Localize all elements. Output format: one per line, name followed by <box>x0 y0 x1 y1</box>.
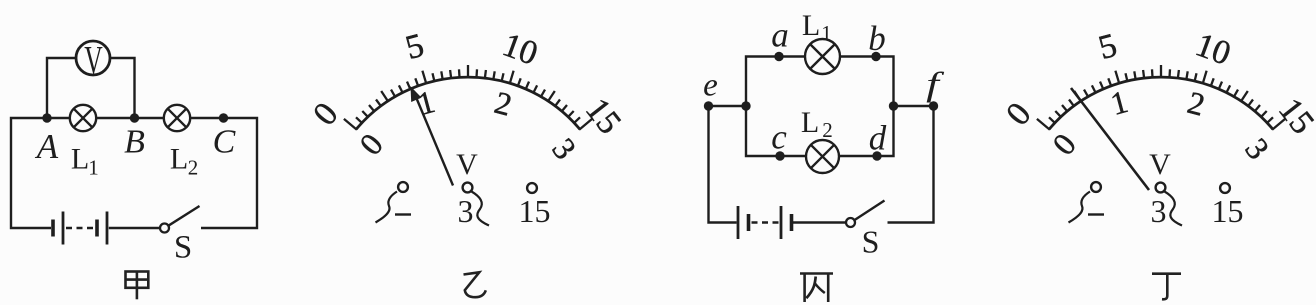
svg-text:S: S <box>862 224 880 260</box>
caption bing (丙) <box>800 274 833 303</box>
battery (jia) <box>51 220 55 237</box>
terminal 3 <box>463 183 473 193</box>
terminal 3 lead squiggle <box>1165 192 1183 226</box>
svg-text:15: 15 <box>519 193 551 229</box>
minus sign <box>1088 213 1104 215</box>
node left junction <box>741 101 750 110</box>
scale ticks <box>1037 65 1285 130</box>
wire: voltmeter branch <box>47 58 135 118</box>
svg-text:S: S <box>174 230 192 266</box>
needle (yi) with arrowhead <box>415 94 454 186</box>
node right junction <box>889 101 898 110</box>
svg-text:e: e <box>703 68 718 104</box>
dial arc <box>356 77 580 129</box>
terminal minus lead squiggle <box>376 192 398 223</box>
dial arc <box>1049 77 1273 129</box>
caption jia (甲) <box>126 272 149 300</box>
svg-text:B: B <box>124 124 145 161</box>
svg-text:2: 2 <box>188 156 199 180</box>
svg-text:V: V <box>84 39 102 83</box>
wire: bing outer + branches <box>709 57 934 223</box>
battery (bing) <box>737 206 740 239</box>
terminal 15 <box>1220 183 1230 193</box>
battery dashes (jia) <box>66 227 95 229</box>
node d <box>872 151 881 160</box>
lamp L1 (jia) <box>70 105 96 131</box>
node B <box>130 113 139 122</box>
terminal 15 <box>527 183 537 193</box>
terminal 3 lead squiggle <box>472 192 490 226</box>
caption yi (乙) <box>464 272 486 297</box>
svg-text:1: 1 <box>88 156 99 180</box>
svg-text:V: V <box>1149 148 1171 181</box>
lamp L1 (bing) <box>805 39 840 74</box>
battery dashes (bing) <box>752 221 780 223</box>
node f <box>929 101 938 110</box>
svg-text:A: A <box>35 127 59 166</box>
node A <box>42 113 51 122</box>
minus sign <box>395 213 411 215</box>
svg-text:V: V <box>456 148 478 181</box>
switch S (jia) <box>160 224 169 233</box>
svg-text:1: 1 <box>821 21 832 45</box>
svg-text:b: b <box>868 19 886 58</box>
node b <box>871 52 880 61</box>
svg-text:c: c <box>771 118 787 157</box>
svg-text:a: a <box>771 16 789 55</box>
svg-text:L: L <box>170 143 188 176</box>
node e <box>704 101 713 110</box>
svg-text:d: d <box>869 119 887 158</box>
terminal minus <box>1091 182 1101 192</box>
terminal minus <box>398 182 408 192</box>
terminal minus lead squiggle <box>1069 192 1091 223</box>
node c <box>775 151 784 160</box>
svg-text:3: 3 <box>1151 193 1167 229</box>
caption ding (丁) <box>1152 274 1181 300</box>
node C <box>219 113 228 122</box>
svg-text:L: L <box>801 106 819 139</box>
switch S (bing) <box>846 218 855 227</box>
scale ticks <box>344 65 592 130</box>
svg-text:L: L <box>71 143 89 176</box>
svg-text:C: C <box>213 124 236 161</box>
svg-text:3: 3 <box>458 193 474 229</box>
node a <box>774 52 783 61</box>
svg-text:2: 2 <box>822 118 833 142</box>
lamp L2 (jia) <box>164 105 190 131</box>
svg-text:L: L <box>802 9 820 42</box>
voltmeter V1 <box>76 41 110 75</box>
needle (ding) <box>1071 88 1149 190</box>
svg-text:15: 15 <box>1212 193 1244 229</box>
wire: jia outer loop <box>11 118 257 228</box>
lamp L2 (bing) <box>806 140 839 173</box>
terminal 3 <box>1156 183 1166 193</box>
